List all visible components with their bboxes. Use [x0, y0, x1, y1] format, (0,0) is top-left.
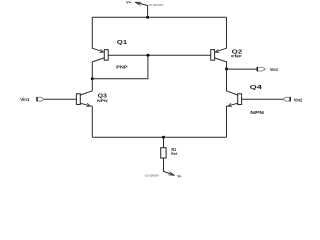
svg-text:-15.00000V: -15.00000V [144, 174, 159, 178]
wire Vin1 to Q3 base [44, 98, 77, 100]
wire Q1 collector down-left [92, 58, 104, 79]
svg-text:Ref: Ref [171, 152, 178, 156]
power V+ arrow [135, 2, 141, 5]
svg-text:PNP: PNP [231, 54, 242, 59]
svg-text:Vout: Vout [270, 67, 278, 72]
wire base tie (Q1 base to Q2 base) [108, 54, 211, 56]
svg-text:Q4: Q4 [250, 85, 262, 91]
wire V+ stub [136, 2, 148, 17]
wire Q2 collector to Q4 collector [227, 69, 238, 95]
port Vin2 [283, 97, 290, 101]
svg-text:Vin2: Vin2 [294, 97, 303, 102]
transistor Q1 base bar [104, 50, 108, 61]
resistor R1 body [161, 148, 166, 158]
svg-text:Q1: Q1 [117, 40, 128, 46]
wire left emitter (rail to Q1) [92, 17, 104, 52]
transistor Q2 base bar [211, 50, 215, 61]
wire Q4 base to Vin2 [241, 98, 283, 100]
transistor Q4 emitter arrow (NPN, out) [228, 103, 232, 107]
transistor Q3 base bar [76, 94, 80, 105]
transistor Q3 emitter arrow (NPN, out) [86, 103, 90, 107]
wire Q3 emitter down-right [80, 103, 92, 137]
node base tie junction [147, 54, 150, 57]
wire bottom rail [92, 136, 226, 138]
transistor Q1 emitter arrow (PNP, into base) [99, 49, 103, 53]
power V- arrow [168, 172, 174, 176]
node tail junction [162, 136, 165, 139]
svg-text:NPN: NPN [250, 110, 264, 115]
transistor Q4 base bar [238, 94, 242, 105]
wire diode connection to Q1 collector [92, 55, 148, 78]
node V+ tap junction [146, 16, 149, 19]
wire Q1 collector to Q3 collector [80, 79, 92, 95]
svg-text:V-: V- [177, 174, 182, 179]
wire Vout [227, 68, 257, 70]
wire R1 to V- [164, 158, 175, 175]
svg-text:PNP: PNP [116, 65, 127, 70]
wire right emitter (rail to Q2) [215, 17, 227, 52]
node Q1 collector junction [91, 77, 94, 80]
transistor Q2 emitter arrow (PNP, into base) [215, 49, 219, 53]
svg-text:Vin1: Vin1 [20, 97, 30, 102]
svg-text:NPN: NPN [97, 98, 108, 103]
node Vout junction [225, 68, 228, 71]
wire Q2 collector down-right [215, 58, 227, 69]
wire top rail V+ [92, 16, 226, 18]
wire Q4 emitter down-left [227, 103, 238, 137]
port Vin1 [37, 97, 44, 101]
wire tail to R1 [163, 137, 165, 148]
svg-text:V+: V+ [126, 1, 131, 5]
svg-text:15.00000V: 15.00000V [148, 3, 163, 7]
port Vout [257, 67, 265, 71]
